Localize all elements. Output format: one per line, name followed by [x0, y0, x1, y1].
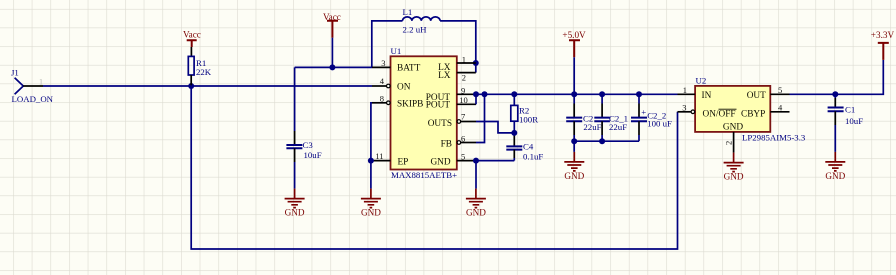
svg-text:LX: LX	[438, 71, 451, 81]
power +3.3V	[871, 30, 895, 60]
U2 pin 2	[724, 132, 734, 153]
wire main POUT line	[476, 93, 678, 95]
wire J1 to ON pin	[43, 85, 372, 87]
resistor R1	[188, 56, 211, 76]
wire OUTS to R2 bottom	[476, 122, 514, 133]
wire SKIPB to EP/ground	[371, 103, 372, 161]
svg-text:Vacc: Vacc	[183, 30, 201, 40]
svg-text:FB: FB	[441, 139, 452, 149]
wire BATT line	[295, 66, 372, 68]
svg-text:GND: GND	[825, 171, 845, 181]
svg-text:22uF: 22uF	[583, 122, 601, 132]
svg-text:U1: U1	[391, 46, 402, 56]
wire pin9 to pin10 link	[475, 94, 477, 104]
svg-text:LOAD_ON: LOAD_ON	[12, 94, 54, 104]
U1 pin 4	[372, 76, 390, 88]
capacitor C3	[286, 140, 321, 160]
junction R2 top	[511, 91, 517, 97]
U1 pin 2	[457, 72, 476, 82]
svg-text:C4: C4	[523, 142, 534, 152]
svg-text:BATT: BATT	[397, 64, 421, 74]
wire C2 group bottom bus	[574, 140, 639, 142]
wire R1 bottom lead	[190, 75, 192, 85]
svg-text:IN: IN	[702, 91, 712, 101]
junction at R1 bottom	[188, 83, 194, 89]
resistor R2	[511, 94, 538, 124]
U1 pin 8	[372, 93, 390, 104]
svg-text:10uF: 10uF	[845, 116, 863, 126]
svg-text:8: 8	[380, 93, 384, 103]
svg-text:11: 11	[375, 151, 383, 161]
svg-text:22uF: 22uF	[609, 122, 627, 132]
wire L1 left branch	[372, 21, 403, 68]
svg-text:U2: U2	[696, 75, 707, 85]
ground EP	[361, 189, 381, 218]
wire +5.0V down	[573, 57, 575, 94]
junction C1	[832, 91, 838, 97]
U1 pin names	[397, 63, 452, 167]
svg-text:1: 1	[683, 85, 687, 95]
svg-text:L1: L1	[403, 7, 413, 17]
U1 pin 9	[457, 86, 476, 96]
U2 pin 3	[678, 102, 695, 113]
U1 pin 6	[457, 134, 476, 145]
U1 pin 11	[372, 151, 391, 161]
wire C4 bottom	[513, 150, 515, 158]
junction Vacc/BATT	[329, 64, 335, 70]
power Vacc above R1	[183, 30, 201, 47]
IC U2 body	[695, 75, 806, 142]
capacitor C4	[506, 142, 543, 162]
power Vacc above BATT line	[323, 12, 341, 38]
svg-text:10uF: 10uF	[304, 150, 322, 160]
svg-text:+: +	[641, 107, 646, 117]
capacitor C2_1	[594, 94, 628, 141]
svg-text:9: 9	[461, 86, 465, 96]
wire bottom long run to U2 pin3	[191, 86, 677, 249]
svg-text:GND: GND	[564, 171, 584, 181]
svg-text:POUT: POUT	[426, 101, 451, 111]
svg-text:ON/OFF: ON/OFF	[703, 110, 736, 120]
ground C3	[285, 189, 305, 218]
U1 pin 1	[457, 54, 476, 64]
wire L1 right branch	[440, 21, 476, 73]
junction bus mid	[599, 138, 605, 144]
svg-text:2: 2	[462, 72, 466, 82]
svg-text:C1: C1	[845, 105, 855, 115]
svg-text:100 uF: 100 uF	[647, 118, 672, 128]
svg-text:MAX8815AETB+: MAX8815AETB+	[391, 170, 457, 180]
wire bus to ground	[573, 141, 575, 152]
wire Vacc to R1	[190, 47, 192, 56]
U1 pin 5	[457, 152, 476, 162]
inductor L1	[403, 7, 441, 35]
junction FB riser top	[482, 91, 488, 97]
svg-text:2: 2	[724, 141, 734, 145]
U2 pin names	[702, 91, 767, 133]
svg-text:GND: GND	[723, 123, 743, 133]
svg-text:7: 7	[461, 112, 465, 122]
IC U1 body	[391, 46, 458, 180]
capacitor C2_2 polarized	[631, 94, 672, 141]
ground C1	[825, 152, 845, 181]
svg-text:+3.3V: +3.3V	[871, 30, 895, 40]
U2 pin 1	[678, 85, 696, 95]
svg-text:6: 6	[461, 134, 465, 144]
junction bus left	[571, 138, 577, 144]
junction L1/pin1	[473, 60, 479, 66]
svg-text:OUT: OUT	[747, 91, 766, 101]
capacitor C2	[566, 94, 601, 141]
svg-text:CBYP: CBYP	[741, 110, 765, 120]
junction C2	[571, 91, 577, 97]
svg-text:ON: ON	[397, 82, 411, 92]
svg-text:2.2 uH: 2.2 uH	[403, 24, 428, 34]
wire Vacc to BATT line	[331, 38, 333, 68]
svg-text:GND: GND	[430, 157, 450, 167]
U2 pin 5	[770, 85, 789, 95]
svg-text:+5.0V: +5.0V	[562, 30, 586, 40]
svg-text:3: 3	[682, 102, 686, 112]
svg-text:LP2985AIM5-3.3: LP2985AIM5-3.3	[742, 132, 806, 142]
ground C2 group	[564, 152, 584, 181]
junction R2/OUTS	[511, 130, 517, 136]
svg-text:3: 3	[381, 58, 385, 68]
svg-text:EP: EP	[398, 157, 409, 167]
svg-text:J1: J1	[11, 68, 19, 78]
U1 pin 3	[372, 58, 391, 68]
power +5.0V	[562, 30, 586, 57]
capacitor C1	[828, 94, 864, 152]
svg-text:GND: GND	[361, 208, 381, 218]
svg-text:GND: GND	[466, 208, 486, 218]
svg-text:SKIPB: SKIPB	[397, 99, 423, 109]
svg-text:5: 5	[778, 85, 782, 95]
wire FB riser	[476, 94, 485, 142]
wire EP down	[370, 161, 372, 189]
ground U1 pin5	[466, 189, 486, 218]
junction pin9	[473, 91, 479, 97]
junction C2_1	[599, 91, 605, 97]
svg-text:10: 10	[459, 95, 468, 105]
wire C3 to ground	[294, 148, 296, 162]
svg-text:100R: 100R	[519, 115, 538, 125]
svg-text:1: 1	[462, 54, 466, 64]
svg-text:GND: GND	[724, 172, 744, 182]
junction C2_2	[636, 91, 642, 97]
svg-text:0.1uF: 0.1uF	[523, 152, 543, 162]
wire GND pin5 run	[476, 160, 514, 162]
U1 pin 7	[457, 112, 476, 124]
svg-text:C3: C3	[303, 140, 314, 150]
wire R2 bottom	[513, 121, 515, 134]
connector J1	[11, 68, 54, 105]
wire pin5 to ground	[475, 161, 477, 189]
junction EP	[368, 158, 374, 164]
ground U2	[724, 153, 744, 182]
svg-text:OUTS: OUTS	[428, 119, 452, 129]
svg-text:GND: GND	[285, 208, 305, 218]
junction pin5	[473, 158, 479, 164]
U2 pin 4	[770, 102, 789, 112]
U1 pin 10	[457, 95, 476, 105]
wire BATT line down to C3	[294, 67, 296, 131]
wire OUT net	[790, 60, 884, 94]
svg-text:1: 1	[39, 78, 43, 87]
svg-text:22K: 22K	[196, 67, 212, 77]
svg-text:5: 5	[461, 152, 465, 162]
